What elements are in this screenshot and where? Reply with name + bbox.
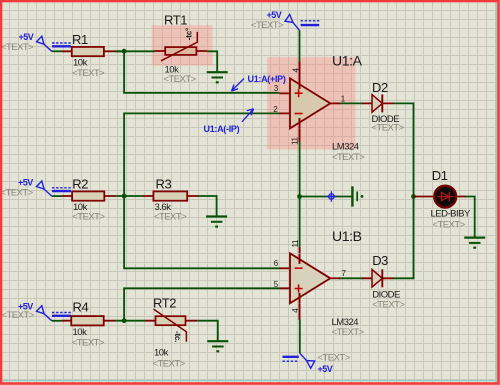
svg-text:RT2: RT2 xyxy=(153,295,176,310)
svg-text:<TEXT>: <TEXT> xyxy=(372,122,405,133)
svg-text:<TEXT>: <TEXT> xyxy=(2,310,35,321)
svg-text:R4: R4 xyxy=(73,299,89,314)
svg-text:+5V: +5V xyxy=(18,177,33,187)
sheet edge teal line right xyxy=(495,2,497,383)
wire R2 to R3 xyxy=(115,195,143,197)
pin 11 stub U1:B xyxy=(299,247,301,253)
wire RT2 to ground xyxy=(197,321,218,341)
svg-text:U1:A: U1:A xyxy=(332,52,363,68)
origin marker (blue crosshair) xyxy=(326,191,337,202)
op-amp U1:A xyxy=(273,52,365,163)
pin 4 stub U1:B xyxy=(299,303,301,320)
svg-text:U1:A(-IP): U1:A(-IP) xyxy=(204,124,240,134)
sheet edge teal line bottom xyxy=(2,380,496,382)
wire net B down to pin6 xyxy=(124,196,279,268)
svg-text:<TEXT>: <TEXT> xyxy=(154,211,187,222)
svg-text:<TEXT>: <TEXT> xyxy=(72,337,105,348)
wire RT1 to ground xyxy=(207,51,217,72)
svg-text:10k: 10k xyxy=(154,347,169,358)
net label U1:A(+IP) xyxy=(232,74,286,91)
wire U1:B output xyxy=(339,277,363,279)
svg-text:11: 11 xyxy=(290,136,299,145)
wire rail to battery xyxy=(300,196,352,198)
wire R3 to ground xyxy=(198,196,217,216)
op-amp U1:B xyxy=(274,228,365,338)
resistor R2 xyxy=(62,177,115,223)
svg-text:10k: 10k xyxy=(73,327,88,338)
pin 11 stub U1:A xyxy=(299,128,301,142)
svg-text:<TEXT>: <TEXT> xyxy=(1,188,34,199)
svg-text:<TEXT>: <TEXT> xyxy=(1,42,34,53)
ground G4 xyxy=(464,238,485,248)
power terminal +5V row4 xyxy=(37,306,72,321)
wire R2 left xyxy=(52,195,62,197)
svg-text:+5V: +5V xyxy=(318,364,333,374)
ground G3 xyxy=(207,341,228,351)
svg-text:<TEXT>: <TEXT> xyxy=(332,152,365,163)
wire pin11 rail down xyxy=(299,142,301,248)
svg-text:RT1: RT1 xyxy=(164,13,187,28)
svg-text:+5V: +5V xyxy=(267,10,282,20)
pin 4 stub U1:A xyxy=(299,62,301,79)
diode D2 xyxy=(362,80,405,134)
junction node rail/battery xyxy=(297,194,302,199)
wire U1:A output xyxy=(339,102,363,104)
svg-text:D1: D1 xyxy=(432,168,448,183)
svg-text:U1:A(+IP): U1:A(+IP) xyxy=(248,74,286,84)
svg-text:U1:B: U1:B xyxy=(332,228,362,244)
wire D2 to right column xyxy=(394,103,414,197)
junction node LED branch xyxy=(411,194,416,199)
svg-text:<TEXT>: <TEXT> xyxy=(251,20,284,31)
svg-text:<TEXT>: <TEXT> xyxy=(332,327,365,338)
highlight box RT1 xyxy=(152,25,213,65)
svg-text:R2: R2 xyxy=(72,177,88,192)
power terminal +5V row2 xyxy=(37,181,72,196)
wire R1 to RT1 xyxy=(115,50,155,52)
net label U1:A(-IP) xyxy=(204,109,254,134)
resistor R3 xyxy=(143,177,198,223)
svg-text:<TEXT>: <TEXT> xyxy=(153,359,186,370)
svg-text:D2: D2 xyxy=(372,80,388,95)
wire LED to ground xyxy=(465,197,475,238)
power terminal +5V row1 xyxy=(37,36,72,51)
svg-text:R3: R3 xyxy=(156,177,172,192)
svg-text:-tc.: -tc. xyxy=(173,331,182,342)
wire R4 left xyxy=(52,320,62,322)
highlight box U1:A xyxy=(267,57,356,149)
junction node R2/R3 xyxy=(122,194,127,199)
resistor R1 xyxy=(62,32,124,79)
svg-text:LM324: LM324 xyxy=(332,141,359,152)
svg-text:R1: R1 xyxy=(72,32,88,47)
svg-text:+5V: +5V xyxy=(19,32,34,42)
pin 7 stub xyxy=(330,277,340,279)
power terminal +5V top (U1:A pin4 rail) xyxy=(285,15,319,31)
svg-text:<TEXT>: <TEXT> xyxy=(433,219,466,230)
svg-text:-tc°: -tc° xyxy=(184,28,193,40)
ground G2 xyxy=(206,217,227,227)
wire net C pin5 from R4 junction xyxy=(124,288,279,320)
wire R4 to RT2 xyxy=(115,320,145,322)
wire net A vertical to pin3 xyxy=(124,51,279,93)
wire net B pin2 horizontal and vertical to R2 junction xyxy=(124,113,279,196)
wire D3 to right column xyxy=(394,196,414,278)
ground G1 xyxy=(207,72,228,82)
junction node R1/RT1 xyxy=(122,49,127,54)
junction node R4/RT2 xyxy=(122,318,127,323)
wire R1 left xyxy=(52,50,62,52)
power terminal +5V bottom xyxy=(283,353,315,368)
diode D3 xyxy=(362,253,405,311)
thermistor RT2 xyxy=(145,295,197,369)
wire +5V to U1:A pin4 xyxy=(299,30,301,63)
LED D1 xyxy=(414,168,471,231)
thermistor RT1 xyxy=(154,13,207,86)
svg-text:<TEXT>: <TEXT> xyxy=(318,353,351,364)
pin 1 stub xyxy=(330,102,340,104)
resistor R4 xyxy=(62,299,115,348)
svg-text:<TEXT>: <TEXT> xyxy=(164,74,197,85)
svg-text:<TEXT>: <TEXT> xyxy=(72,211,105,222)
svg-text:LED-BIBY: LED-BIBY xyxy=(431,208,471,219)
battery cell symbol xyxy=(352,186,357,206)
svg-text:<TEXT>: <TEXT> xyxy=(72,68,105,79)
svg-text:11: 11 xyxy=(291,239,300,248)
svg-text:<TEXT>: <TEXT> xyxy=(372,300,405,311)
wire pin4 to +5V bottom xyxy=(299,320,301,354)
svg-text:D3: D3 xyxy=(372,253,388,268)
